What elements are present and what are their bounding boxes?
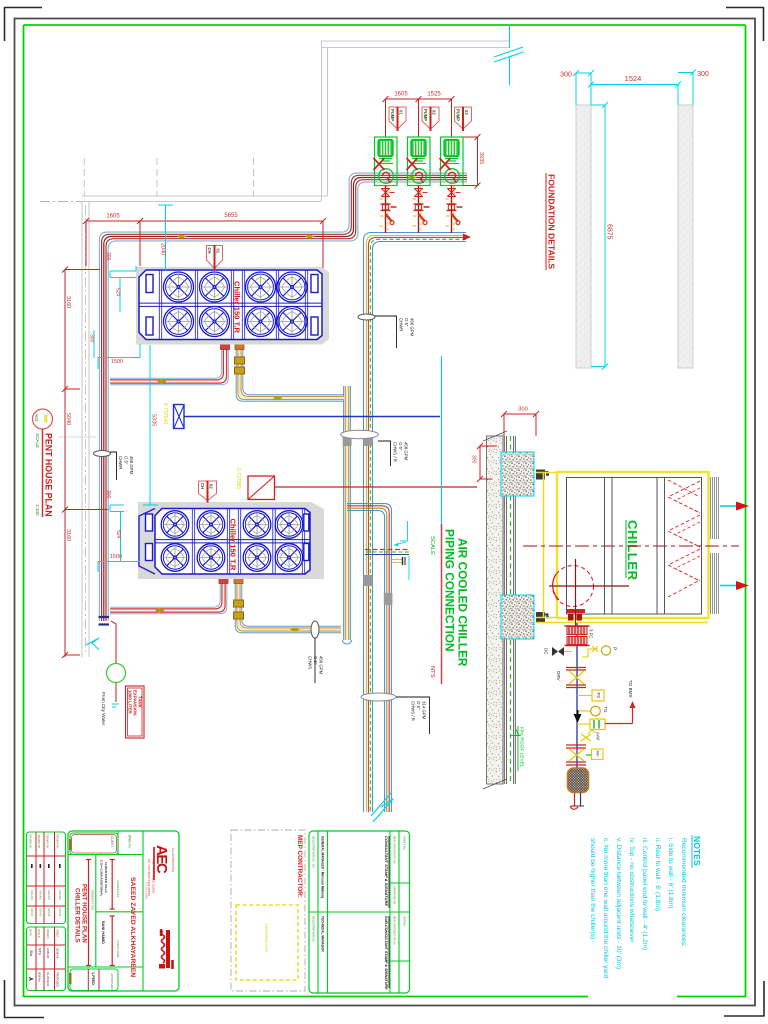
svg-text:REGISTRATION NO : NO: REGISTRATION NO : NO — [312, 836, 316, 869]
svg-text:O 5": O 5" — [416, 701, 421, 710]
detail callout line — [275, 486, 478, 488]
pipe break ellipse risers upper — [341, 430, 379, 438]
riser bottom zigzag break — [371, 793, 391, 816]
chiller2 left cap — [139, 509, 155, 575]
svg-text:AIR COOLED CHILLER: AIR COOLED CHILLER — [456, 538, 470, 667]
expansion tank label box — [126, 686, 145, 738]
svg-text:0.737540: 0.737540 — [162, 403, 168, 424]
flow label CHWS/R 458 risers — [378, 441, 391, 466]
title red brackets — [88, 860, 90, 966]
svg-text:SCALE: SCALE — [35, 433, 40, 448]
arabic logo — [166, 930, 170, 968]
title block bottom box — [70, 969, 118, 991]
svg-text:CONSULTANT: CONSULTANT — [116, 880, 120, 898]
dimension line above pumps — [386, 98, 452, 100]
chiller tag CH 01 — [207, 246, 223, 269]
svg-text:DRAWN BY: DRAWN BY — [56, 835, 60, 849]
dimension 524 chiller2 cyan — [120, 512, 122, 562]
svg-text:DRAWN BY: DRAWN BY — [46, 835, 50, 849]
flow switch FS — [577, 695, 592, 697]
svg-text:TANK: TANK — [138, 696, 143, 709]
svg-text:O 5": O 5" — [398, 442, 403, 451]
chiller CH-02 unit — [138, 502, 324, 579]
svg-text:MV: MV — [596, 751, 601, 757]
pump 1 suction piping — [385, 186, 387, 234]
flow arrows on pipes — [177, 234, 187, 239]
svg-text:C.D=+1.000 ADDITIONAL: C.D=+1.000 ADDITIONAL — [100, 860, 104, 897]
svg-text:iii. Control panel end to wall: iii. Control panel end to wall - 4' (1.2… — [641, 838, 648, 950]
pump P-02 — [408, 137, 431, 186]
blue line long — [184, 416, 440, 418]
dimension 1524 foundation — [591, 84, 678, 86]
left dimension chain 3160-5040-3160 — [64, 270, 66, 658]
riser3 side stub — [392, 559, 402, 561]
svg-text:CHWS: CHWS — [308, 656, 313, 669]
title block top box — [70, 833, 118, 855]
svg-text:3 FC: 3 FC — [589, 629, 594, 638]
svg-text:DC: DC — [544, 648, 549, 655]
pad anchor lower — [536, 612, 545, 622]
svg-text:SHEET: SHEET — [56, 929, 60, 938]
svg-text:A: A — [27, 977, 33, 981]
pipe break ellipse pump riser — [358, 314, 375, 320]
pump 2 suction piping — [418, 186, 420, 234]
svg-text:524: 524 — [115, 530, 121, 539]
svg-text:APPROVED BY: APPROVED BY — [393, 886, 397, 905]
pipe end caps left riser — [99, 616, 110, 618]
svg-text:O 5": O 5" — [123, 456, 128, 465]
svg-text:FLOOR INTER VILLA: FLOOR INTER VILLA — [104, 862, 108, 894]
svg-text:MEP CONSULTANT No: MEP CONSULTANT No — [393, 836, 397, 864]
svg-text:3160: 3160 — [65, 529, 71, 541]
svg-text:APPROVED: APPROVED — [110, 973, 114, 991]
chiller end louvers — [710, 477, 712, 539]
svg-text:PIPING CONNECTION: PIPING CONNECTION — [443, 529, 457, 652]
svg-text:300: 300 — [560, 72, 572, 79]
svg-text:Fax : 4444 40502 DUBAI: Fax : 4444 40502 DUBAI — [152, 859, 156, 894]
supply flow arrow — [720, 505, 736, 507]
svg-text:Chiller 150 T.R: Chiller 150 T.R — [229, 519, 238, 571]
svg-text:CHWS / R: CHWS / R — [393, 442, 398, 462]
svg-text:458 GPM: 458 GPM — [403, 442, 408, 461]
svg-text:01: 01 — [399, 110, 404, 115]
pipe break ellipse left riser — [94, 451, 111, 457]
svg-text:SCALE: SCALE — [429, 536, 435, 555]
svg-text:REV-00: REV-00 — [39, 908, 42, 917]
svg-text:458 GPM: 458 GPM — [409, 318, 414, 337]
chiller2 return flange — [234, 578, 243, 584]
svg-text:DWG No.: DWG No. — [128, 835, 132, 849]
pump tag PUMP 01 — [389, 107, 406, 129]
svg-text:REV-00: REV-00 — [58, 908, 61, 917]
svg-text:02: 02 — [432, 110, 437, 115]
chiller section inner body — [567, 478, 702, 615]
riser1 bottom cap — [343, 640, 352, 644]
svg-text:SAEED ZAYED ALKHAYAREEN: SAEED ZAYED ALKHAYAREEN — [129, 877, 136, 977]
svg-text:300: 300 — [105, 490, 111, 499]
chiller1 return flange — [235, 344, 244, 350]
dimension 300 left foundation — [576, 72, 591, 74]
svg-text:CHWS / R: CHWS / R — [411, 701, 416, 721]
svg-text:5655: 5655 — [224, 213, 238, 219]
svg-text:TG: TG — [603, 707, 608, 714]
svg-text:03: 03 — [464, 110, 469, 115]
svg-text:2040: 2040 — [160, 243, 166, 255]
wall insulation dashed green — [510, 436, 512, 784]
foundation strip left — [576, 105, 591, 368]
svg-text:PUMP: PUMP — [390, 109, 395, 121]
chiller1 supply branch pipe — [110, 345, 228, 385]
pipe main vertical — [576, 623, 578, 768]
chiller2 return branch pipe — [242, 578, 341, 626]
svg-text:3935: 3935 — [478, 152, 484, 164]
pipe riser 1 tan — [349, 386, 351, 640]
green sheet frame — [24, 24, 746, 26]
svg-text:DRAWN BY: DRAWN BY — [37, 835, 41, 849]
svg-text:DRAWN: DRAWN — [46, 929, 50, 939]
pot strainer — [568, 768, 589, 793]
svg-text:AAV: AAV — [596, 732, 601, 740]
svg-text:458 GPM: 458 GPM — [318, 656, 323, 675]
valve DRV — [566, 667, 586, 669]
svg-text:PENT HOUSE PLAN: PENT HOUSE PLAN — [81, 884, 88, 943]
building outline lower horizontal wall — [82, 195, 328, 197]
dimension 300-1500 lower-left chiller1 — [93, 330, 95, 358]
svg-text:PENT HOUSE PLAN: PENT HOUSE PLAN — [44, 433, 54, 517]
concrete pad lower — [501, 595, 534, 639]
svg-text:CHWR: CHWR — [399, 318, 404, 331]
revision table upper — [27, 832, 66, 924]
return flow arrow — [720, 585, 736, 587]
detail callout box — [248, 476, 275, 500]
svg-text:1000 LITER: 1000 LITER — [128, 690, 133, 714]
condenser coil chevrons — [668, 481, 700, 513]
svg-text:1-PEED: 1-PEED — [91, 972, 95, 985]
dimension line 1605-5655 — [86, 220, 323, 222]
svg-text:ASB-04: ASB-04 — [46, 948, 50, 959]
BMS sensor — [577, 723, 590, 725]
svg-text:JOB No: JOB No — [38, 972, 42, 982]
svg-text:MEP CONTRACTOR:: MEP CONTRACTOR: — [296, 835, 303, 898]
svg-text:2019-04: 2019-04 — [56, 948, 60, 959]
chiller centerline — [523, 545, 739, 547]
supply manifold arrow — [463, 234, 471, 241]
chiller2 supply flange — [219, 578, 228, 584]
svg-text:FIN. ROOF LEVEL: FIN. ROOF LEVEL — [519, 727, 525, 768]
pipe CHWR return manifold and left riser — [108, 182, 467, 621]
chiller tag CH 02 — [199, 481, 217, 501]
revision table lower — [27, 927, 66, 991]
svg-text:PROPOSED: PROPOSED — [56, 972, 60, 987]
dimension 5335 cyan — [149, 345, 151, 505]
pump tag PUMP 02 — [422, 107, 439, 129]
svg-text:GENERAL MANAGER : Mansour Matl: GENERAL MANAGER : Mansour Matlooq — [321, 836, 325, 898]
svg-text:Recommended minimum clearances: Recommended minimum clearances: — [680, 838, 687, 947]
svg-text:FS: FS — [596, 693, 601, 699]
svg-text:3160: 3160 — [65, 296, 71, 308]
chiller1 supply flange — [221, 344, 230, 350]
svg-text:REV-00: REV-00 — [30, 908, 33, 917]
svg-text:CH: CH — [200, 483, 205, 489]
svg-text:02: 02 — [209, 484, 214, 489]
svg-text:1525: 1525 — [427, 92, 441, 98]
flexible connector FC — [567, 627, 587, 635]
svg-text:01: 01 — [216, 249, 221, 254]
svg-text:SCALE: SCALE — [37, 929, 41, 938]
building grid stubs — [83, 158, 85, 196]
svg-text:30a.: 30a. — [29, 950, 33, 957]
chiller2 supply branch pipe — [110, 578, 227, 614]
chiller1 return valves — [235, 357, 245, 364]
roof wall section stipple — [487, 436, 504, 784]
svg-text:NOTES: NOTES — [692, 836, 702, 866]
city water pipe — [111, 621, 116, 663]
svg-text:CONTRACTOR: CONTRACTOR — [264, 924, 269, 952]
chiller1 return branch pipe — [243, 345, 344, 395]
svg-text:1500: 1500 — [111, 359, 123, 365]
svg-text:5335: 5335 — [151, 414, 157, 426]
svg-text:REV-A/B: REV-A/B — [47, 890, 50, 900]
dimension 300 section left — [479, 446, 481, 479]
pipe break ellipse chiller2 return — [311, 621, 319, 638]
svg-text:JOB No.: JOB No. — [403, 916, 407, 927]
pump leader lines — [385, 99, 387, 137]
pump tag PUMP 03 — [455, 107, 472, 129]
contractor stamp box — [236, 905, 298, 980]
pump P-03 — [441, 137, 464, 186]
svg-text:i. Side to wall - 6' (1.8m): i. Side to wall - 6' (1.8m) — [667, 838, 674, 909]
svg-text:REV-A/B: REV-A/B — [39, 890, 42, 900]
to BMS line — [605, 723, 633, 725]
svg-text:Chiller 150 T.R: Chiller 150 T.R — [233, 281, 242, 333]
flow direction arrow — [577, 710, 579, 715]
svg-text:PUMP: PUMP — [456, 109, 461, 121]
svg-text:From City Water: From City Water — [101, 692, 106, 726]
svg-text:300: 300 — [697, 71, 709, 78]
flow label CHWR 458 pump riser — [375, 316, 397, 348]
dimension 2040 cyan — [165, 205, 167, 270]
svg-text:A.E.CONTRACTING: A.E.CONTRACTING — [171, 848, 175, 872]
pipe riser 1 to riser 3 jog — [347, 504, 391, 812]
svg-text:CHILLER DETAILS: CHILLER DETAILS — [74, 888, 81, 943]
svg-text:CH: CH — [207, 248, 212, 254]
flow label CHWS 458 chiller2 — [314, 638, 316, 683]
strainer drain lines — [574, 793, 576, 807]
svg-text:ii. Rear to wall - 6' (1.8m): ii. Rear to wall - 6' (1.8m) — [654, 838, 661, 911]
pipe CHWS supply manifold and riser 2 — [373, 242, 467, 813]
svg-text:CHILLER: CHILLER — [625, 520, 640, 581]
svg-text:PUMP: PUMP — [423, 109, 428, 121]
chiller2 return valves — [234, 600, 244, 607]
chiller connection fitting — [566, 609, 585, 613]
pump P-01 — [375, 137, 398, 186]
svg-text:1605: 1605 — [106, 214, 120, 220]
section break zigzag top — [509, 26, 511, 48]
building faint grid line — [58, 436, 96, 438]
svg-text:P.O.Box 8888: P.O.Box 8888 — [145, 882, 149, 899]
compressor circle — [553, 566, 594, 607]
svg-text:SUB-CONSULTANT STAMP & SIGNATU: SUB-CONSULTANT STAMP & SIGNATURE — [384, 916, 388, 990]
svg-text:DATE: DATE — [29, 929, 33, 936]
svg-text:DRAWN BY: DRAWN BY — [29, 835, 33, 849]
svg-text:1605: 1605 — [394, 92, 408, 98]
svg-text:1500: 1500 — [110, 554, 122, 560]
svg-text:REGISTRATION NO :: REGISTRATION NO : — [312, 916, 316, 944]
svg-text:NTS: NTS — [429, 666, 435, 678]
break zigzag city water — [86, 638, 99, 650]
thermometer TG — [577, 710, 591, 712]
wall cut marks — [483, 431, 507, 441]
svg-text:CLIENT NAME: CLIENT NAME — [116, 940, 120, 958]
dimension 300 section — [504, 413, 536, 415]
svg-text:SHEET No.: SHEET No. — [403, 836, 407, 851]
svg-text:CLIENT: CLIENT — [110, 836, 114, 847]
building outline left wall lower — [81, 202, 83, 658]
svg-text:300: 300 — [471, 455, 477, 464]
svg-text:6875: 6875 — [606, 224, 613, 240]
building outline left wall upper — [321, 41, 323, 201]
svg-text:EXPANSION: EXPANSION — [133, 690, 138, 716]
svg-text:DRV: DRV — [556, 671, 561, 682]
svg-text:TO BMS: TO BMS — [628, 680, 633, 698]
svg-text:300: 300 — [105, 252, 111, 261]
svg-text:1524: 1524 — [625, 74, 642, 83]
pump 3 suction piping — [451, 186, 453, 234]
pad anchor upper — [536, 470, 545, 480]
svg-text:300: 300 — [518, 407, 528, 413]
MEP section border — [231, 830, 305, 991]
svg-text:MEP CONTRACTOR No: MEP CONTRACTOR No — [393, 916, 397, 945]
dimension 524 upper cyan — [119, 278, 121, 312]
svg-text:NTS: NTS — [38, 948, 42, 956]
building outline top wall — [322, 40, 510, 42]
gauge P piping — [564, 651, 572, 653]
riser couplings — [343, 437, 352, 446]
svg-text:A03: A03 — [34, 414, 39, 422]
svg-text:1:100: 1:100 — [35, 504, 40, 516]
svg-text:5040: 5040 — [65, 413, 71, 425]
yellow pipe below chiller — [536, 622, 708, 624]
svg-text:458 GPM: 458 GPM — [129, 456, 134, 475]
svg-text:CONSULTANT STAMP & SIGNATURE: CONSULTANT STAMP & SIGNATURE — [384, 836, 389, 906]
yellow riser line — [543, 473, 545, 618]
svg-text:BANI HAMID: BANI HAMID — [101, 921, 105, 944]
svg-text:TECHNICAL MANAGER: TECHNICAL MANAGER — [321, 916, 325, 952]
svg-text:314 GPM: 314 GPM — [421, 701, 426, 720]
main title block frame — [68, 831, 179, 991]
svg-text:iv. Top - no obstructions what: iv. Top - no obstructions whatsoever — [628, 838, 635, 943]
valve MV — [566, 744, 586, 746]
svg-text:O 5": O 5" — [404, 318, 409, 327]
svg-text:REV-A/B: REV-A/B — [30, 890, 33, 900]
sheet corner marks — [4, 7, 42, 9]
svg-text:DRAWING TITLE: DRAWING TITLE — [91, 890, 95, 910]
flow label CHWS/R 314 risers lower — [396, 697, 430, 734]
svg-text:0.727083: 0.727083 — [235, 468, 241, 489]
svg-text:524: 524 — [115, 288, 121, 297]
foundation strip right — [678, 105, 693, 368]
contractor table — [309, 831, 410, 993]
expansion tank circle — [107, 664, 126, 683]
svg-text:REV-A/B: REV-A/B — [58, 890, 61, 900]
existing pipe dashed stub — [365, 549, 409, 551]
svg-text:c. No more than one wall aroun: c. No more than one wall around the chil… — [602, 838, 609, 978]
blue damper component — [174, 405, 185, 429]
svg-text:O 5": O 5" — [313, 656, 318, 665]
building grid dash-dot line — [40, 201, 82, 203]
svg-text:FOUNDATION DETAILS: FOUNDATION DETAILS — [547, 174, 557, 269]
concrete pad upper — [501, 452, 534, 496]
pipe break ellipse risers lower — [361, 693, 396, 701]
svg-text:P: P — [613, 647, 618, 650]
title PENT HOUSE PLAN — [33, 409, 53, 429]
wall finish lines — [503, 436, 505, 784]
svg-text:REV-00: REV-00 — [47, 908, 50, 917]
svg-text:should be higher than the chil: should be higher than the chiller(s) — [589, 838, 596, 939]
air vent AAV — [581, 734, 591, 741]
dimension 300 right foundation — [678, 72, 693, 74]
dimension 5365 right of pumps — [477, 137, 479, 186]
section cut line cyan — [441, 356, 443, 556]
dimension 6875 foundation — [604, 105, 606, 366]
check valve DC — [552, 647, 558, 656]
flow label CHWR 458 left — [110, 452, 117, 480]
svg-text:300: 300 — [89, 334, 95, 343]
cyan detail marks near risers — [407, 521, 409, 541]
svg-text:v. Distance between adjacent u: v. Distance between adjacent units - 10'… — [615, 838, 622, 969]
chiller CH-01 unit — [136, 267, 329, 345]
chiller section yellow casing — [557, 472, 709, 618]
svg-text:04-2019-04: 04-2019-04 — [46, 972, 50, 987]
svg-text:CHWR: CHWR — [118, 456, 123, 469]
